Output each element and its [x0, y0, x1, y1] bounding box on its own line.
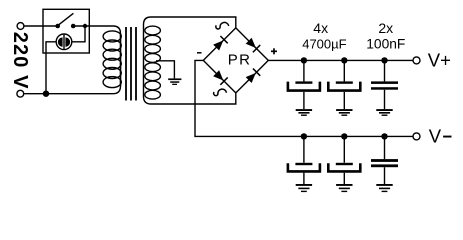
diode D2 (top to right) [245, 37, 261, 53]
svg-text:V+: V+ [428, 49, 451, 70]
capacitor C6 ceramic 100nF [371, 136, 398, 184]
capacitor C2 electrolytic 4700uF [328, 60, 360, 109]
transformer primary winding [103, 31, 121, 88]
ground C5 [336, 184, 352, 192]
terminal V+ [413, 57, 420, 64]
wire: secondary bottom to bridge AC bottom [144, 93, 236, 104]
terminal bottom (220V neutral) [17, 90, 24, 97]
junction C1 on V+ [301, 57, 307, 63]
label minus at bridge [197, 52, 202, 54]
svg-text:V: V [429, 125, 442, 146]
neon lamp right electrode [65, 37, 70, 46]
switch S1 contact left [55, 24, 60, 29]
transformer secondary winding [144, 25, 161, 100]
enclosure box (switch + lamp unit) [43, 9, 89, 53]
svg-text:2x: 2x [378, 20, 393, 36]
switch S1 lever [59, 13, 73, 24]
AC squiggle top [216, 22, 229, 29]
capacitor C5 electrolytic 4700uF [328, 136, 360, 184]
junction C3 on V+ [381, 57, 387, 63]
wire: secondary center tap to ground [156, 61, 174, 79]
capacitor C4 electrolytic 4700uF [288, 136, 320, 184]
svg-text:100nF: 100nF [366, 37, 405, 52]
wire: switch to primary top [73, 26, 120, 34]
capacitor C1 electrolytic 4700uF [288, 60, 320, 109]
label plus at bridge [271, 48, 277, 54]
wire: bridge minus down to V- rail [195, 60, 413, 136]
junction C2 on V+ [341, 57, 347, 63]
junction C6 on V- [381, 133, 387, 139]
bridge rectifier PR outline [203, 28, 268, 93]
junction C5 on V- [341, 133, 347, 139]
neon lamp center bar [63, 35, 65, 50]
neon lamp circle [56, 34, 72, 50]
ground C1 [296, 109, 312, 116]
svg-text:220 V: 220 V [9, 32, 31, 90]
ground C6 [376, 184, 392, 192]
wire: bottom terminal to transformer primary bottom [24, 34, 121, 94]
ground (center tap) [168, 78, 181, 85]
capacitor C3 ceramic 100nF [371, 60, 398, 109]
diode D4 (bottom to right) [245, 68, 261, 84]
terminal V- [413, 133, 420, 140]
diode D3 (left to bottom) [212, 70, 228, 86]
ground C4 [296, 184, 312, 192]
wire: top terminal to switch box [24, 25, 58, 27]
wire: lamp right lead up to switched line [72, 26, 85, 42]
junction: lamp return on neutral [43, 91, 49, 97]
switch S1 contact right [71, 24, 76, 29]
AC squiggle bottom [214, 89, 227, 96]
neon lamp left electrode [58, 37, 63, 46]
terminal top (220V line) [17, 23, 24, 30]
wire: bridge plus to V+ rail [268, 59, 413, 61]
ground C2 [336, 109, 352, 116]
transformer core [126, 27, 136, 101]
svg-text:4700µF: 4700µF [302, 37, 346, 52]
wire: lamp left lead down to neutral [46, 42, 56, 94]
junction: lamp tap on switched line [83, 24, 87, 28]
diode D1 (left to top) [212, 35, 228, 51]
svg-text:PR: PR [228, 51, 251, 68]
ground C3 [376, 109, 392, 116]
junction C4 on V- [301, 133, 307, 139]
wire: secondary top to bridge AC top [144, 17, 236, 28]
svg-text:4x: 4x [313, 20, 328, 36]
